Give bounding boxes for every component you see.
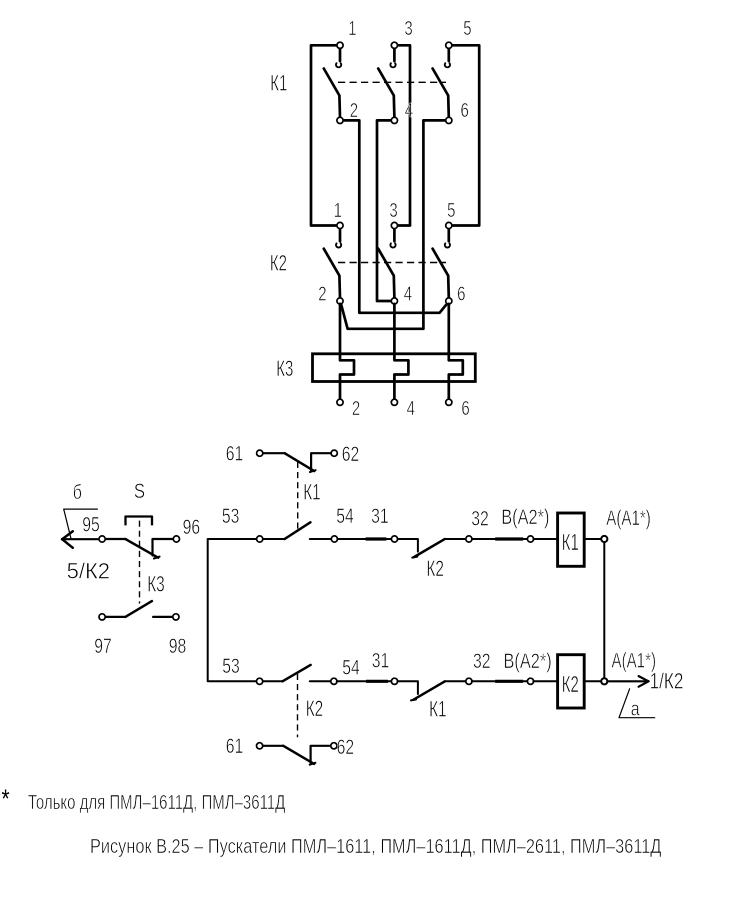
svg-text:95: 95	[82, 512, 100, 536]
svg-text:31: 31	[372, 648, 390, 672]
terminal 62 (upper)	[331, 442, 359, 466]
svg-text:А(А1*): А(А1*)	[606, 505, 651, 529]
contactor K2 pole 2 (main NO contact)	[378, 228, 395, 298]
terminal 31 (lower)	[372, 648, 398, 684]
coil K1	[558, 513, 585, 566]
K2 operating link dashed line	[338, 262, 446, 264]
svg-text:1: 1	[348, 17, 356, 40]
svg-text:3: 3	[389, 199, 397, 222]
svg-text:К2: К2	[562, 672, 579, 698]
contactor K1 pole 1 (main NO contact)	[324, 48, 341, 117]
wire K1 pin4 to K2 pin4	[377, 120, 394, 301]
terminal 61 (lower)	[226, 734, 263, 758]
svg-text:а: а	[631, 698, 641, 720]
svg-text:61: 61	[226, 441, 244, 465]
contact K3 95-96 (NC, thermal relay)	[105, 539, 174, 559]
svg-text:32: 32	[473, 649, 491, 673]
terminal 62 (lower)	[331, 735, 354, 759]
thermal element K3 phase 2	[394, 304, 408, 400]
svg-text:2: 2	[318, 282, 326, 305]
contact K1 31-32 (NC) lower rung	[398, 681, 467, 700]
svg-text:2: 2	[352, 397, 360, 420]
footnote: only for PML-1611D, PML-3611D	[2, 784, 286, 813]
wire 32 to B with jumper (upper)	[472, 538, 528, 540]
svg-text:Только для ПМЛ–1611Д, ПМЛ–3611: Только для ПМЛ–1611Д, ПМЛ–3611Д	[28, 791, 285, 814]
wire left link rail (corner between rungs)	[208, 539, 260, 681]
contactor K2 pole 1 (main NO contact)	[324, 228, 341, 298]
svg-text:97: 97	[94, 634, 112, 658]
svg-text:5/К2: 5/К2	[67, 558, 110, 583]
wire K1 middle link (terminal 3 to K2 terminal 3)	[394, 45, 410, 225]
terminal 6 (K1 bottom, pin 6)	[446, 99, 469, 123]
svg-text:2: 2	[350, 99, 358, 122]
svg-text:53: 53	[222, 654, 240, 678]
terminal 3 (K1 top, pin 3)	[391, 17, 413, 49]
terminal 1 (K2 top, pin 1)	[334, 199, 344, 229]
contact K3 97-98 (NO, thermal relay)	[105, 601, 174, 617]
wire K1 pin2 to K2 pin6 (phase swap)	[340, 120, 448, 312]
svg-text:К2: К2	[306, 698, 324, 722]
terminal 6 (K2 bottom, pin 6)	[446, 282, 466, 305]
terminal 4 (K1 bottom, pin 4)	[391, 99, 413, 123]
thermal element K3 phase 1	[340, 304, 354, 400]
terminal 95	[82, 512, 105, 542]
svg-text:К1: К1	[429, 698, 447, 722]
wire node A vertical link	[603, 539, 605, 681]
test button S actuator	[126, 480, 153, 525]
terminal 53 (upper)	[222, 504, 263, 542]
terminal 54 (lower)	[331, 655, 360, 684]
contact K1 53-54 (NO) upper rung	[263, 522, 332, 539]
svg-text:4: 4	[404, 282, 412, 305]
terminal 2 (K1 bottom, pin 2)	[337, 99, 358, 123]
svg-text:S: S	[134, 480, 145, 503]
wire coil K1 to node A	[584, 538, 601, 540]
svg-text:К2: К2	[270, 251, 287, 276]
wire B to coil K1	[533, 538, 557, 540]
aux contact K1 61-62 (NC)	[263, 453, 332, 472]
terminal 32 (lower)	[466, 649, 491, 684]
svg-text:53: 53	[222, 504, 240, 528]
svg-text:62: 62	[342, 442, 360, 466]
terminal 6 (K3 bottom, pin 6)	[446, 397, 470, 420]
terminal 5 (K2 top, pin 5)	[446, 199, 456, 229]
thermal relay K3 box	[313, 354, 476, 382]
K1 aux link dashed line	[297, 462, 299, 530]
svg-text:К3: К3	[276, 356, 293, 381]
svg-text:3: 3	[404, 17, 412, 40]
terminal 53 (lower)	[222, 654, 262, 685]
svg-text:К1: К1	[562, 530, 579, 556]
svg-text:62: 62	[337, 735, 355, 759]
contact K2 31-32 (NC) upper rung	[398, 539, 467, 558]
S to K3 link dashed line	[139, 521, 141, 604]
terminal 31 (upper)	[371, 504, 398, 542]
wire K1 right rail (terminal 5 to K2 terminal 5)	[449, 45, 479, 225]
svg-text:98: 98	[169, 634, 187, 658]
terminal B(A2*) upper	[501, 505, 549, 542]
svg-text:4: 4	[407, 397, 415, 420]
contactor K2 pole 3 (main NO contact)	[433, 228, 450, 298]
wire reference arrow to 5/K2	[62, 531, 99, 548]
svg-text:5: 5	[447, 199, 455, 222]
terminal 4 (K2 bottom, pin 4)	[391, 282, 412, 305]
svg-text:К1: К1	[303, 481, 321, 505]
svg-text:6: 6	[461, 99, 469, 122]
contact K2 53-54 (NO) lower rung	[263, 665, 332, 681]
svg-text:96: 96	[183, 515, 201, 539]
svg-text:61: 61	[226, 734, 244, 758]
svg-text:К1: К1	[270, 70, 287, 95]
svg-text:К3: К3	[147, 573, 165, 597]
wire B to coil K2	[533, 680, 557, 682]
terminal 97	[94, 614, 112, 658]
svg-text:5: 5	[463, 17, 471, 40]
coil K2	[558, 655, 585, 708]
node / terminal A(A1*) lower	[601, 648, 656, 684]
node A / terminal A(A1*) upper	[601, 505, 651, 542]
thermal element K3 phase 3	[449, 304, 463, 400]
contactor K1 pole 3 (main NO contact)	[433, 48, 450, 117]
terminal 5 (K1 top, pin 5)	[446, 17, 472, 49]
svg-text:31: 31	[371, 504, 389, 528]
svg-text:1/К2: 1/К2	[650, 670, 684, 695]
terminal 54 (upper)	[331, 504, 354, 542]
K1 operating link dashed line	[338, 81, 446, 83]
terminal 4 (K3 bottom, pin 4)	[391, 397, 415, 420]
svg-text:б: б	[73, 481, 82, 503]
wire 54 to 31 with jumper (upper)	[337, 538, 391, 540]
terminal 98	[169, 614, 187, 658]
svg-text:54: 54	[336, 504, 354, 528]
view flag a	[619, 689, 655, 720]
svg-text:32: 32	[471, 506, 489, 530]
contactor K1 pole 2 (main NO contact)	[378, 48, 395, 117]
terminal 3 (K2 top, pin 3)	[389, 199, 397, 229]
svg-text:Рисунок В.25 – Пускатели ПМЛ–1: Рисунок В.25 – Пускатели ПМЛ–1611, ПМЛ–1…	[90, 834, 662, 857]
svg-text:6: 6	[461, 397, 469, 420]
wire coil K2 to node (A1)	[584, 680, 601, 682]
K2 aux link dashed line (lower)	[297, 674, 299, 737]
wire reference arrow to 1/K2	[607, 676, 648, 687]
terminal 2 (K2 bottom, pin 2)	[318, 282, 343, 305]
svg-text:В(А2*): В(А2*)	[504, 649, 552, 672]
aux contact K2 61-62 (NC) lower	[262, 746, 329, 765]
svg-text:4: 4	[405, 99, 413, 122]
wire K1 pin6 to K2 pin2 (phase swap)	[341, 120, 449, 328]
svg-text:К2: К2	[426, 558, 444, 582]
terminal B(A2*) lower	[504, 649, 552, 684]
svg-text:1: 1	[334, 199, 342, 222]
svg-text:В(А2*): В(А2*)	[501, 505, 549, 528]
terminal 61 (upper)	[226, 441, 263, 465]
wire 32 to B with jumper (lower)	[472, 680, 528, 682]
svg-text:6: 6	[457, 282, 465, 305]
svg-text:*: *	[2, 784, 10, 813]
terminal 96	[173, 515, 200, 542]
view flag b (delta)	[64, 481, 98, 538]
terminal 1 (K1 top, pin 1)	[337, 17, 357, 49]
wire K1 left rail (terminal 1 to K2 terminal 1)	[311, 45, 340, 225]
svg-text:54: 54	[342, 655, 360, 679]
terminal 2 (K3 bottom, pin 2)	[337, 397, 360, 420]
wire 54 to 31 with jumper (lower)	[337, 680, 392, 682]
terminal 32 (upper)	[466, 506, 489, 542]
